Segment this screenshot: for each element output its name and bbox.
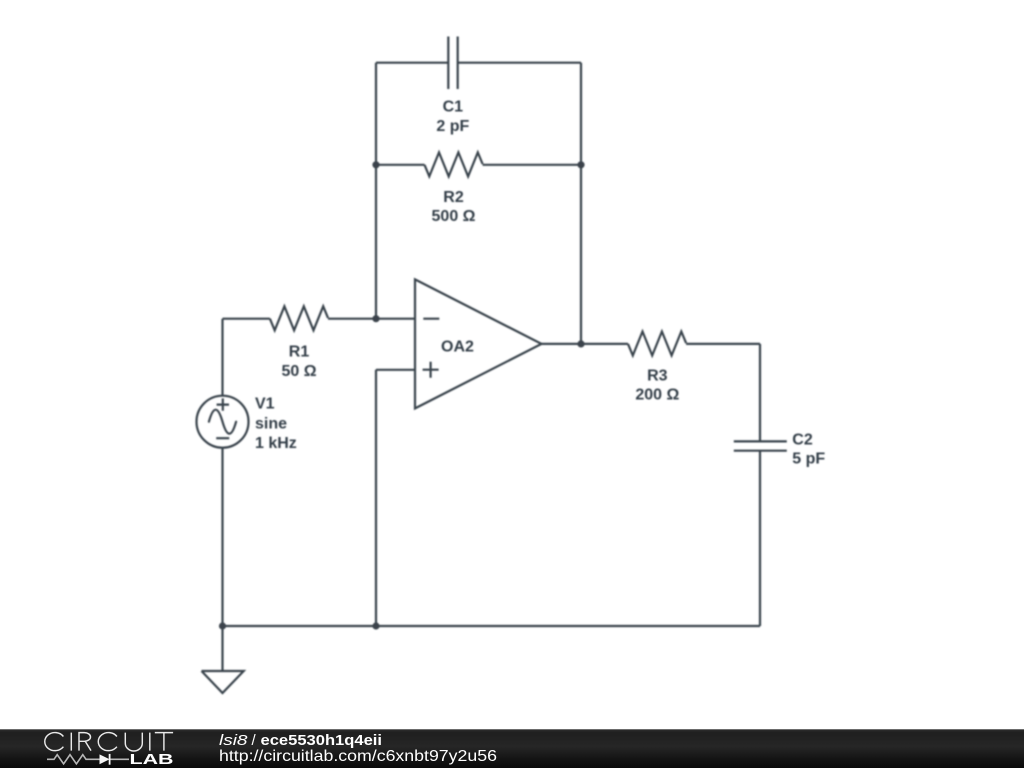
svg-text:R3: R3 bbox=[647, 367, 668, 384]
svg-text:50 Ω: 50 Ω bbox=[281, 363, 316, 380]
svg-text:http://circuitlab.com/c6xnbt97: http://circuitlab.com/c6xnbt97y2u56 bbox=[219, 748, 497, 765]
svg-text:R1: R1 bbox=[289, 344, 310, 361]
svg-text:C1: C1 bbox=[443, 99, 464, 116]
svg-text:sine: sine bbox=[255, 415, 287, 432]
svg-text:OA2: OA2 bbox=[441, 339, 474, 356]
svg-text:2 pF: 2 pF bbox=[436, 118, 469, 135]
svg-text:lsi8: lsi8 bbox=[219, 732, 248, 749]
svg-text:1 kHz: 1 kHz bbox=[255, 435, 297, 452]
svg-text:LAB: LAB bbox=[130, 752, 174, 768]
svg-text:R2: R2 bbox=[443, 189, 464, 206]
svg-text:V1: V1 bbox=[255, 396, 275, 413]
svg-text:ece5530h1q4eii: ece5530h1q4eii bbox=[261, 732, 383, 749]
svg-text:C2: C2 bbox=[792, 432, 813, 449]
svg-text:200 Ω: 200 Ω bbox=[635, 387, 679, 404]
svg-text:5 pF: 5 pF bbox=[792, 450, 825, 467]
svg-text:500 Ω: 500 Ω bbox=[432, 208, 476, 225]
